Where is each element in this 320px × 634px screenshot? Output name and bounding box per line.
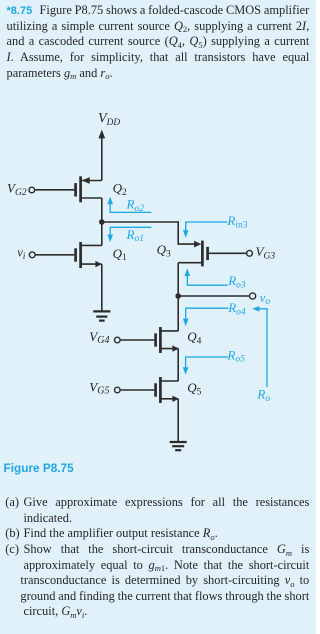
terminal VG2 <box>29 187 74 193</box>
svg-text:Ro: Ro <box>256 387 270 404</box>
wire Q2 drain to node A <box>101 198 103 222</box>
wire node A to Q3 source <box>102 222 195 244</box>
node A junction dot <box>99 219 105 225</box>
svg-text:Ro1: Ro1 <box>126 227 144 244</box>
svg-text:VDD: VDD <box>98 111 120 128</box>
wire Q5 source to ground <box>177 399 179 442</box>
annotation Ro3 arrow <box>185 268 228 285</box>
annotation Ro1 arrow <box>107 227 151 242</box>
ground (below Q5) <box>170 442 187 450</box>
wire output node to Q4 drain <box>177 296 179 331</box>
wire Q1 source down <box>101 264 103 311</box>
wire Q1 drain to node A <box>101 222 103 245</box>
annotation Ro2 arrow <box>107 197 151 213</box>
svg-text:Ro3: Ro3 <box>227 273 246 290</box>
annotation Ro5 arrow <box>183 357 228 375</box>
transistor Q2 (PMOS) <box>76 176 102 202</box>
terminal vo <box>250 293 256 299</box>
svg-text:VG4: VG4 <box>89 329 109 346</box>
wire Q3 drain to output node <box>177 263 179 296</box>
figure caption <box>4 461 74 475</box>
terminal vi <box>29 252 74 258</box>
svg-text:Ro4: Ro4 <box>227 300 246 317</box>
transistor Q4 (NMOS) <box>156 327 179 353</box>
terminal VG3 <box>209 250 253 256</box>
bottom list <box>5 495 309 511</box>
svg-text:VG3: VG3 <box>256 244 276 261</box>
svg-text:VG5: VG5 <box>89 380 109 397</box>
transistor Q1 (NMOS) <box>76 242 102 268</box>
wire Q4 source to Q5 drain <box>177 349 179 381</box>
transistor Q5 (NMOS) <box>156 377 179 403</box>
wire output node to terminal <box>178 295 249 297</box>
svg-text:Ro2: Ro2 <box>126 196 145 213</box>
svg-text:VG2: VG2 <box>7 180 27 197</box>
annotation Ro arrow (into output) <box>252 306 267 387</box>
circuit schematic SVG <box>0 0 316 460</box>
svg-text:Rin3: Rin3 <box>226 213 247 230</box>
output node junction dot <box>175 293 181 299</box>
svg-text:vi: vi <box>17 245 26 261</box>
svg-text:vo: vo <box>260 291 271 307</box>
transistor Q3 (PMOS, mirrored) <box>178 241 207 267</box>
svg-text:Q2: Q2 <box>113 180 127 197</box>
power VDD arrow <box>98 130 105 181</box>
svg-text:Q5: Q5 <box>187 380 201 397</box>
svg-text:Q3: Q3 <box>157 242 171 259</box>
top paragraph <box>7 3 310 19</box>
terminal VG4 <box>115 337 155 343</box>
ground (below Q1) <box>93 311 110 320</box>
terminal VG5 <box>115 387 155 393</box>
svg-text:Q1: Q1 <box>113 246 127 263</box>
annotation Rin3 arrow <box>183 222 228 238</box>
svg-text:Ro5: Ro5 <box>226 347 245 364</box>
svg-text:Q4: Q4 <box>187 329 201 346</box>
annotation Ro4 arrow <box>183 308 229 326</box>
